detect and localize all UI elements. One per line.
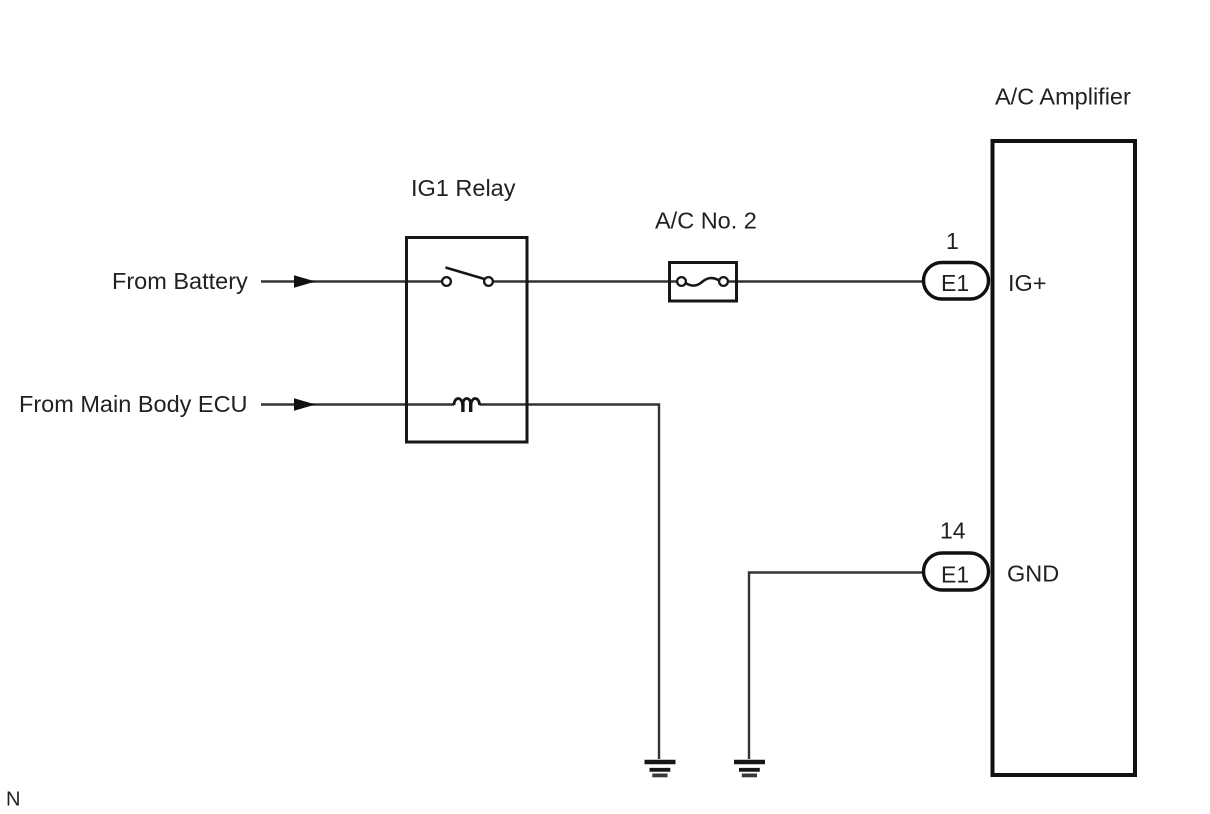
relay IG1 box <box>407 238 528 443</box>
relay switch lever <box>446 268 485 280</box>
wire relay switch to fuse <box>489 280 682 282</box>
svg-text:1: 1 <box>946 228 959 254</box>
relay coil <box>454 399 480 413</box>
svg-text:E1: E1 <box>941 562 969 588</box>
svg-text:From Main Body ECU: From Main Body ECU <box>19 391 248 417</box>
svg-text:IG1 Relay: IG1 Relay <box>411 175 516 201</box>
wire from Main Body ECU to relay coil <box>261 403 454 405</box>
svg-text:GND: GND <box>1007 561 1059 587</box>
arrow on ECU wire <box>294 398 316 410</box>
connector E1 pin 1 <box>924 263 989 300</box>
svg-text:N: N <box>6 789 20 811</box>
svg-text:14: 14 <box>940 518 966 544</box>
arrow on battery wire <box>294 275 316 287</box>
svg-text:From Battery: From Battery <box>112 268 248 294</box>
fuse A/C No.2 box <box>670 263 737 302</box>
wire fuse to E1 IG+ <box>724 280 924 282</box>
wire relay coil to ground drop <box>480 405 660 760</box>
ground symbol right <box>734 762 765 775</box>
svg-text:E1: E1 <box>941 270 969 296</box>
fuse terminal right <box>719 277 728 286</box>
svg-text:IG+: IG+ <box>1008 270 1047 296</box>
relay switch contact left <box>442 277 451 286</box>
connector E1 pin 14 <box>924 553 989 590</box>
fuse terminal left <box>677 277 686 286</box>
A/C Amplifier box <box>993 141 1136 775</box>
wire from battery to relay switch <box>261 280 447 282</box>
ground symbol left <box>645 762 676 775</box>
wire E1 GND to ground drop <box>749 573 924 760</box>
relay switch contact right <box>484 277 493 286</box>
fuse element curve <box>686 278 719 286</box>
svg-text:A/C Amplifier: A/C Amplifier <box>995 84 1131 110</box>
svg-text:A/C No. 2: A/C No. 2 <box>655 208 757 234</box>
